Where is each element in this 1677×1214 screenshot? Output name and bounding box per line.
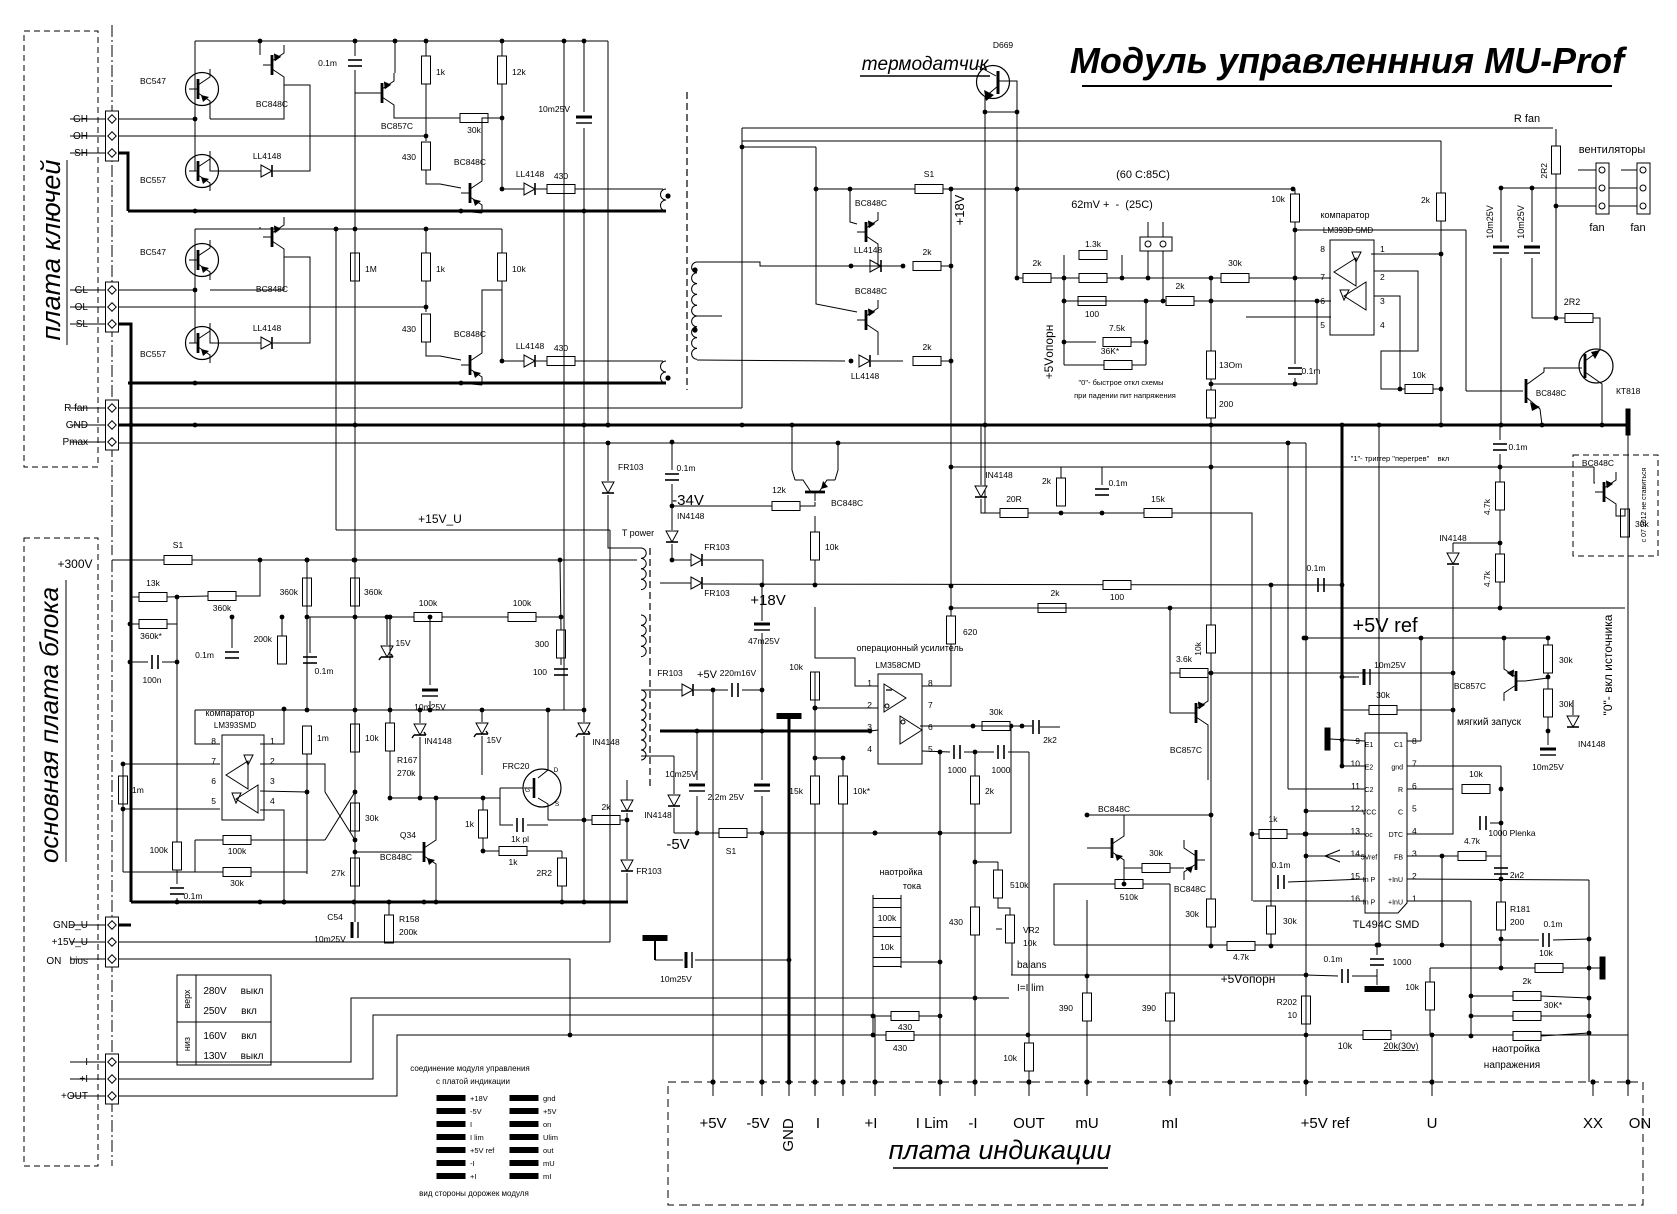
svg-text:1k: 1k: [509, 857, 519, 867]
junction: [1340, 583, 1345, 588]
net label +15V_U: [418, 512, 462, 526]
wire +5V net: [742, 689, 762, 691]
TL494 pin label DTC: [1389, 832, 1403, 839]
svg-text:5: 5: [211, 796, 216, 806]
wire x762 gnd vertical: [761, 585, 763, 621]
svg-text:30k: 30k: [1635, 519, 1649, 529]
resistor 1k q1: [465, 810, 487, 838]
pin label ON bios: [46, 956, 88, 967]
svg-text:2k2: 2k2: [1043, 735, 1057, 745]
junction: [175, 595, 180, 600]
svg-text:+5V ref: +5V ref: [1301, 1115, 1351, 1132]
capacitor 100n: [143, 655, 162, 685]
junction: [1304, 832, 1309, 837]
arrow VR2 wiper: [996, 928, 1002, 930]
lead OH: [70, 135, 105, 137]
svg-text:430: 430: [402, 152, 416, 162]
resistor 30k vt3: [1513, 1032, 1541, 1041]
svg-text:Q34: Q34: [400, 830, 416, 840]
resistor 1.3k N2a: [1079, 239, 1107, 260]
legend label L2: [470, 1120, 472, 1129]
junction: [1293, 228, 1298, 233]
net label +18V: [750, 592, 785, 609]
label плата индикации: [889, 1135, 1112, 1165]
svg-text:30k: 30k: [1185, 909, 1199, 919]
capacitor 0.1m l9: [170, 888, 202, 901]
wire fan row 188: [1501, 187, 1596, 189]
wire 510k bot: [998, 898, 1010, 915]
junction: [938, 750, 943, 755]
svg-text:мягкий запуск: мягкий запуск: [1457, 717, 1522, 728]
table mid line: [177, 1021, 271, 1023]
svg-text:2k: 2k: [1176, 281, 1186, 291]
junction: [740, 423, 745, 428]
wire fan feed: [1555, 174, 1557, 318]
wire -I col mid: [974, 804, 976, 907]
stub 975: [974, 1082, 976, 1096]
capacitor 0.1m s10: [1307, 563, 1326, 592]
wire T1 sec tap: [697, 315, 722, 317]
transistor BC848C A1: [256, 45, 288, 109]
label 20k(30v): [1383, 1041, 1418, 1051]
wire fan row 206b: [1609, 205, 1637, 207]
junction: [500, 359, 505, 364]
svg-text:1k: 1k: [436, 264, 446, 274]
wire s2 emitter: [1207, 733, 1209, 780]
wire op5 row a: [922, 751, 950, 752]
junction: [424, 227, 429, 232]
junction: [1451, 671, 1456, 676]
label R202: [1277, 997, 1298, 1007]
bold emitter bus B: [128, 382, 666, 385]
resistor 10k cmp: [1271, 194, 1299, 222]
wire x1211 link: [1210, 278, 1212, 301]
net label -I bottom: [968, 1115, 977, 1132]
resistor 12k A: [498, 56, 527, 84]
TL494 pin label R: [1398, 787, 1403, 794]
svg-text:10m25V: 10m25V: [665, 769, 697, 779]
wire r7 bot: [1499, 582, 1501, 608]
label 200k r158: [399, 927, 418, 937]
junction: [1085, 813, 1090, 818]
resistor 10k bm: [1003, 1043, 1033, 1071]
svg-text:1000: 1000: [992, 765, 1011, 775]
wire X diag2: [325, 792, 355, 840]
wire S1 right: [943, 188, 1293, 190]
wire plenka right: [1490, 822, 1501, 824]
junction: [388, 796, 393, 801]
junction: [1315, 299, 1320, 304]
svg-text:LM358CMD: LM358CMD: [875, 660, 920, 670]
wire q34 base: [355, 851, 415, 853]
svg-text:R: R: [1398, 787, 1403, 794]
connector dot 940: [937, 1079, 942, 1084]
transistor BC848C B1: [256, 217, 288, 294]
resistor R158 200k: [385, 915, 394, 943]
resistor 10k c8: [811, 532, 840, 560]
wire BC547b collector: [194, 229, 196, 290]
svg-text:IN4148: IN4148: [985, 470, 1013, 480]
resistor 1k tl1: [1259, 814, 1287, 839]
pin1 op: [867, 678, 872, 688]
capacitor 2.2m25V: [754, 785, 770, 791]
svg-text:30k: 30k: [1228, 258, 1242, 268]
svg-text:360k: 360k: [280, 587, 299, 597]
wire y960 row a: [655, 959, 683, 961]
transistor BC547 B: [140, 240, 219, 280]
net label +I bottom: [865, 1115, 878, 1132]
resistor 2R2 q: [536, 858, 566, 886]
junction: [1440, 854, 1445, 859]
wire left col 123: [122, 764, 124, 872]
diode IN4148 c5: [666, 511, 705, 542]
svg-text:100k: 100k: [150, 845, 169, 855]
wire SL bold: [118, 324, 131, 383]
label наотройка напряжения 2: [1484, 1060, 1540, 1071]
junction: [1062, 340, 1067, 345]
wire fan base riser: [1465, 230, 1467, 391]
junction: [1540, 423, 1545, 428]
svg-text:4.7k: 4.7k: [1464, 836, 1481, 846]
svg-text:основная плата блока: основная плата блока: [34, 587, 64, 863]
junction: [813, 583, 818, 588]
wire fb3 top: [1210, 673, 1212, 899]
svg-text:BC848C: BC848C: [1582, 458, 1614, 468]
wire x1064 drop: [1063, 278, 1065, 365]
connector dot 1170: [1167, 1079, 1172, 1084]
svg-text:10k: 10k: [365, 733, 379, 743]
transformer T1 secondary: [692, 262, 698, 359]
junction: [1062, 276, 1067, 281]
wire x1146 vert: [1145, 301, 1147, 365]
wire pin2 to X: [260, 764, 325, 792]
svg-text:2k: 2k: [923, 247, 933, 257]
junction: [814, 187, 819, 192]
wire c2 bot: [671, 484, 673, 506]
connector -I/+I/+OUT: [106, 1054, 119, 1104]
junction: [1269, 944, 1274, 949]
ground bar center: [777, 714, 801, 719]
wire x195 col: [194, 840, 196, 872]
pin label GND_U: [53, 920, 88, 931]
pin label SH: [74, 148, 88, 159]
diode IN4148 s8: [1567, 716, 1606, 749]
wire T2 emitter-diode: [877, 340, 879, 355]
pin 2 cmp: [1380, 272, 1385, 282]
wire 300-100: [560, 658, 562, 665]
svg-text:10k: 10k: [1539, 948, 1553, 958]
wire 10k cmp bottom: [1294, 222, 1296, 278]
wire zl3 top: [583, 710, 585, 722]
svg-text:mU: mU: [1075, 1115, 1098, 1132]
junction: [1430, 1033, 1435, 1038]
wire 430 i left: [873, 1015, 891, 1017]
svg-text:10k: 10k: [789, 662, 803, 672]
underline плата ключей: [66, 160, 68, 345]
wire vp2 top: [1376, 945, 1378, 955]
junction: [1293, 382, 1298, 387]
resistor 30k l4: [351, 803, 380, 831]
bold analog gnd: [660, 730, 870, 733]
connector dot 789: [786, 1079, 791, 1084]
svg-text:0.1m: 0.1m: [195, 650, 214, 660]
wire 10k cmp top: [1294, 189, 1296, 194]
wire 360ka up: [236, 560, 260, 596]
svg-text:4: 4: [1380, 320, 1385, 330]
junction: [670, 440, 675, 445]
TL494 pin 14: [1351, 849, 1361, 859]
svg-text:balans: balans: [1017, 960, 1046, 971]
wire KT818 base: [1544, 368, 1582, 372]
resistor R181 200: [1497, 902, 1506, 930]
svg-text:1k: 1k: [465, 819, 475, 829]
resistor 100k bt1: [873, 899, 901, 924]
wire zl3 bot: [583, 736, 585, 902]
svg-text:-I: -I: [968, 1115, 977, 1132]
legend bar R5: [510, 1161, 538, 1166]
wire s5 base: [1525, 678, 1548, 681]
svg-text:-I: -I: [470, 1159, 475, 1168]
resistor 100k m2: [508, 598, 536, 622]
resistor 200: [1207, 390, 1234, 418]
wire 200k top: [281, 617, 283, 636]
svg-text:10k: 10k: [512, 264, 526, 274]
svg-text:mI: mI: [1162, 1115, 1179, 1132]
resistor S1 n5: [719, 829, 747, 857]
title underline: [1082, 85, 1612, 87]
junction: [353, 423, 358, 428]
capacitor 220m16V: [720, 668, 757, 697]
junction: [1009, 724, 1014, 729]
transformer T2 primary mid: [641, 615, 646, 657]
svg-text:2.2m 25V: 2.2m 25V: [708, 792, 745, 802]
table низ: [182, 1037, 192, 1051]
wire x951 vertical: [950, 189, 952, 361]
label 10k b: [1338, 1041, 1353, 1051]
wire s2 coll: [1207, 673, 1209, 693]
wire x130 col: [129, 597, 131, 683]
wire x1501 vert: [1500, 766, 1502, 945]
svg-text:1m: 1m: [132, 785, 144, 795]
svg-text:0.1m: 0.1m: [184, 891, 203, 901]
label C54: [327, 912, 343, 922]
wire t2s diode bot: [673, 808, 675, 833]
connector dot 713: [710, 1079, 715, 1084]
svg-text:5: 5: [1320, 320, 1325, 330]
wire s6-s7: [1547, 673, 1549, 689]
junction: [1144, 299, 1149, 304]
junction: [1209, 813, 1214, 818]
table верх: [182, 989, 192, 1009]
svg-text:5: 5: [1412, 804, 1417, 814]
wire op6 right: [1008, 751, 1029, 753]
wire +15VU conn row: [118, 941, 610, 943]
resistor 10k bt3: [873, 958, 901, 967]
svg-text:13Om: 13Om: [1219, 360, 1242, 370]
resistor 390 bb4: [1059, 993, 1092, 1021]
wire op3 bot2: [842, 804, 844, 1082]
svg-text:30k: 30k: [1283, 916, 1297, 926]
junction: [459, 209, 464, 214]
resistor 1k B: [422, 253, 446, 281]
transistor BC857C A: [373, 73, 413, 131]
wire r9-r10: [1616, 509, 1625, 516]
wire r9 base: [1594, 467, 1595, 483]
wire y301 row: [1064, 300, 1317, 302]
junction: [760, 831, 765, 836]
junction: [1469, 1034, 1474, 1039]
pin 3 cmp: [1380, 296, 1385, 306]
capacitor 2k2 op9: [1033, 720, 1057, 745]
pin2 op: [867, 700, 872, 710]
TL494 pin label In P: [1363, 900, 1376, 907]
wire pin6 R right: [1407, 788, 1453, 790]
svg-text:0.1m: 0.1m: [1109, 478, 1128, 488]
junction: [971, 724, 976, 729]
wire x177 col: [176, 597, 178, 844]
svg-text:2k: 2k: [923, 342, 933, 352]
wire rr2 right: [1563, 967, 1600, 969]
svg-text:выкл: выкл: [241, 986, 264, 997]
svg-text:ON bios: ON bios: [46, 956, 88, 967]
pin7 op: [928, 700, 933, 710]
wire lcmp pin7 left: [123, 763, 220, 765]
svg-text:20k(30v): 20k(30v): [1383, 1041, 1418, 1051]
wire pin12 VCC: [1306, 810, 1365, 812]
wire 390a bot: [1086, 1021, 1088, 1082]
wire un bot: [1430, 1010, 1432, 1035]
svg-text:30k: 30k: [230, 878, 244, 888]
label R158: [399, 914, 420, 924]
svg-text:Ulim: Ulim: [543, 1133, 558, 1142]
resistor R167 270k: [386, 723, 395, 751]
junction: [1469, 994, 1474, 999]
wire 2.2m top: [761, 731, 763, 780]
wire rr right: [1553, 939, 1589, 940]
net label ON bottom: [1629, 1115, 1652, 1132]
wire x608 vertical top: [607, 41, 609, 425]
junction: [1587, 1031, 1592, 1036]
legend label R3: [543, 1133, 558, 1142]
transistor BC547 A: [140, 69, 219, 109]
resistor 360k d: [351, 578, 384, 606]
pin label +I: [79, 1074, 88, 1085]
wire R158 top: [388, 902, 390, 915]
wire fb row 945: [1054, 944, 1501, 946]
label 10m25V f1: [1485, 205, 1495, 239]
wire 1k B top: [425, 229, 427, 253]
wire pin16 InP: [1253, 900, 1365, 902]
table 250V: [203, 1006, 227, 1017]
wire D669 collector down: [1016, 81, 1018, 278]
connector dot 975: [972, 1079, 977, 1084]
svg-text:I: I: [816, 1115, 820, 1132]
wire par right: [1121, 255, 1123, 278]
wire y798 row: [390, 797, 500, 799]
svg-text:при падении пит напряжения: при падении пит напряжения: [1074, 391, 1176, 400]
wire y872 row: [123, 871, 307, 873]
svg-text:+InU: +InU: [1388, 900, 1403, 907]
svg-text:КТ818: КТ818: [1616, 386, 1641, 396]
connector dot 843: [840, 1079, 845, 1084]
diode LL4148 A2: [516, 169, 545, 195]
wire 13Om top: [1210, 301, 1212, 351]
resistor 30k fb2: [1267, 906, 1298, 934]
pin1 lcmp: [270, 736, 275, 746]
wire FR103c1 to T2: [608, 495, 641, 548]
svg-text:2и2: 2и2: [1510, 870, 1524, 880]
resistor 100k m1: [414, 598, 442, 622]
diode IN4148 r8: [1439, 533, 1467, 564]
capacitor 47m25V: [748, 624, 780, 646]
svg-text:+18V: +18V: [952, 194, 967, 225]
pin 4 cmp: [1380, 320, 1385, 330]
junction: [353, 227, 358, 232]
net label -34V: [672, 492, 704, 509]
wire op3 top: [842, 758, 844, 776]
wire y365 row: [1064, 364, 1104, 366]
TL494 pin 13: [1351, 826, 1361, 836]
underline термодатчик: [860, 75, 990, 77]
svg-text:соединение модуля управления: соединение модуля управления: [410, 1064, 530, 1073]
wire c5 bot: [671, 544, 673, 560]
junction: [282, 900, 287, 905]
wire BC857C A collector: [394, 41, 396, 73]
lead +OUT: [70, 1095, 105, 1097]
svg-text:36K*: 36K*: [1101, 346, 1120, 356]
svg-text:FB: FB: [1394, 855, 1403, 862]
svg-text:15k: 15k: [789, 786, 803, 796]
table вкл2: [241, 1031, 257, 1042]
wire T2 sec bot: [641, 755, 674, 757]
wire x1421 C1: [1420, 638, 1422, 741]
resistor 10k* op3: [839, 776, 871, 804]
wire BC848C B1 link: [210, 257, 284, 290]
wire lcmp pin5 left: [123, 808, 220, 810]
legend bar R3: [510, 1135, 538, 1140]
wire cap A drop: [354, 41, 356, 56]
svg-text:T power: T power: [622, 528, 654, 538]
svg-text:IN4148: IN4148: [1439, 533, 1467, 543]
junction: [1100, 511, 1105, 516]
bold bar rr: [1600, 957, 1605, 979]
junction: [121, 807, 126, 812]
connector GH/OH/SH: [106, 111, 119, 161]
wire bt left vert: [872, 895, 874, 1035]
svg-text:15V: 15V: [486, 735, 501, 745]
transistor KT818: [1579, 349, 1641, 425]
wire bm bot: [1028, 1071, 1030, 1082]
resistor 10k 20k30v: [1363, 1031, 1391, 1040]
wire +I staircase: [118, 1015, 875, 1082]
TL494 pin 4: [1412, 826, 1417, 836]
svg-text:LL4148: LL4148: [253, 323, 282, 333]
svg-text:IN4148: IN4148: [644, 810, 672, 820]
wire 13Om-200: [1210, 379, 1212, 390]
stub 1432: [1431, 1082, 1433, 1096]
wire BC857C A base link: [355, 70, 373, 93]
wire x1271 riser: [1270, 585, 1272, 906]
transformer T1 core: [686, 92, 688, 390]
junction: [428, 615, 433, 620]
svg-text:FR103: FR103: [704, 542, 730, 552]
junction: [1286, 441, 1291, 446]
svg-text:0.1m: 0.1m: [1324, 954, 1343, 964]
wire x584 long vertical: [583, 211, 585, 710]
stub 940: [939, 1082, 941, 1096]
wire y384 link: [1211, 301, 1317, 384]
wire BC557b base: [194, 290, 196, 343]
